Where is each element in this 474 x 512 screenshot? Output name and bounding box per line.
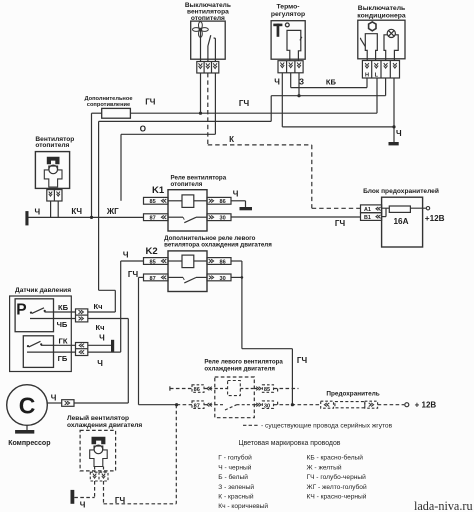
svg-text:Кч: Кч <box>93 302 102 311</box>
svg-text:K2: K2 <box>146 246 158 257</box>
svg-text:Ч: Ч <box>34 208 40 217</box>
svg-text:85: 85 <box>150 259 156 265</box>
svg-text:В1: В1 <box>364 215 371 221</box>
svg-text:К - красный: К - красный <box>218 493 254 501</box>
svg-text:- существующие провода серийны: - существующие провода серийных жгутов <box>261 422 393 430</box>
svg-text:сопротивление: сопротивление <box>87 102 130 108</box>
svg-text:ГБ: ГБ <box>58 354 68 363</box>
svg-text:16А: 16А <box>393 217 408 226</box>
svg-text:охлаждения двигателя: охлаждения двигателя <box>67 422 142 429</box>
svg-text:Реле левого вентилятора: Реле левого вентилятора <box>204 358 283 365</box>
svg-text:КБ: КБ <box>326 77 337 86</box>
svg-text:К: К <box>229 135 234 144</box>
svg-text:+ 12В: + 12В <box>415 401 437 410</box>
svg-text:КЧ - красно-черный: КЧ - красно-черный <box>307 493 367 501</box>
svg-text:ГЧ: ГЧ <box>239 99 250 108</box>
svg-text:С: С <box>19 392 36 418</box>
svg-text:ЧБ: ЧБ <box>57 320 68 329</box>
svg-text:Предохранитель: Предохранитель <box>326 391 379 398</box>
svg-text:ГЧ: ГЧ <box>297 356 308 365</box>
svg-text:Ч: Ч <box>80 500 86 509</box>
svg-text:регулятор: регулятор <box>271 11 305 18</box>
svg-text:КБ: КБ <box>58 303 69 312</box>
svg-text:Ч: Ч <box>233 190 239 199</box>
svg-text:кондиционера: кондиционера <box>357 12 406 19</box>
svg-text:ЖГ - желто-голубой: ЖГ - желто-голубой <box>307 483 367 491</box>
svg-text:Ч: Ч <box>274 77 280 86</box>
svg-text:30: 30 <box>220 216 226 222</box>
svg-text:отопителя: отопителя <box>171 181 203 188</box>
svg-text:Компрессор: Компрессор <box>8 440 50 447</box>
svg-text:З - зеленый: З - зеленый <box>218 483 254 491</box>
svg-text:ГЧ - голубо-черный: ГЧ - голубо-черный <box>307 473 367 481</box>
svg-text:Ч - черный: Ч - черный <box>218 463 251 471</box>
svg-text:lada-niva.ru: lada-niva.ru <box>414 499 473 512</box>
svg-text:Датчик давления: Датчик давления <box>15 287 71 294</box>
svg-text:ветилятора охлаждения двигател: ветилятора охлаждения двигателя <box>164 242 272 249</box>
svg-text:КБ - красно-белый: КБ - красно-белый <box>307 454 364 462</box>
svg-text:ГК: ГК <box>59 336 68 345</box>
svg-text:Цветовая маркировка проводов: Цветовая маркировка проводов <box>239 440 341 447</box>
svg-text:ГЧ: ГЧ <box>145 98 156 107</box>
svg-text:Кч: Кч <box>95 323 104 332</box>
svg-text:Термо-: Термо- <box>276 4 299 11</box>
svg-text:L: L <box>375 73 379 79</box>
svg-text:Б - белый: Б - белый <box>218 473 248 481</box>
svg-text:30: 30 <box>220 276 226 282</box>
svg-text:87: 87 <box>150 216 156 222</box>
svg-text:86: 86 <box>220 199 226 205</box>
svg-text:Ч: Ч <box>99 333 105 342</box>
svg-text:О: О <box>140 124 146 133</box>
svg-text:K1: K1 <box>152 185 165 196</box>
svg-text:охлаждения двигателя: охлаждения двигателя <box>204 366 275 373</box>
svg-text:ГЧ: ГЧ <box>115 496 126 505</box>
svg-text:87: 87 <box>150 276 156 282</box>
svg-text:ГЧ: ГЧ <box>128 270 139 279</box>
svg-text:З: З <box>299 77 304 86</box>
svg-text:ГЧ: ГЧ <box>335 219 346 228</box>
svg-text:85: 85 <box>264 387 270 393</box>
svg-text:ЖГ: ЖГ <box>106 207 119 216</box>
svg-text:30: 30 <box>264 403 270 409</box>
svg-text:86: 86 <box>220 259 226 265</box>
svg-text:+12В: +12В <box>425 214 445 223</box>
svg-text:Левый вентилятор: Левый вентилятор <box>67 414 129 422</box>
svg-text:Кч - коричневый: Кч - коричневый <box>218 502 268 510</box>
svg-text:Ч: Ч <box>51 394 57 403</box>
svg-text:Р: Р <box>16 302 26 319</box>
svg-text:Н: Н <box>365 73 369 79</box>
svg-text:Ж - желтый: Ж - желтый <box>307 463 342 471</box>
svg-text:87: 87 <box>194 403 200 409</box>
svg-text:Блок предохранителей: Блок предохранителей <box>363 187 439 195</box>
svg-text:КЧ: КЧ <box>71 207 82 216</box>
svg-text:86: 86 <box>194 387 200 393</box>
svg-text:85: 85 <box>150 199 156 205</box>
svg-text:Выключатель: Выключатель <box>358 5 405 12</box>
svg-text:Ч: Ч <box>123 250 129 259</box>
svg-text:Ч: Ч <box>396 129 402 138</box>
svg-text:Г - голубой: Г - голубой <box>218 454 252 462</box>
svg-text:отопителя: отопителя <box>35 142 69 149</box>
svg-text:Ч: Ч <box>97 359 103 368</box>
